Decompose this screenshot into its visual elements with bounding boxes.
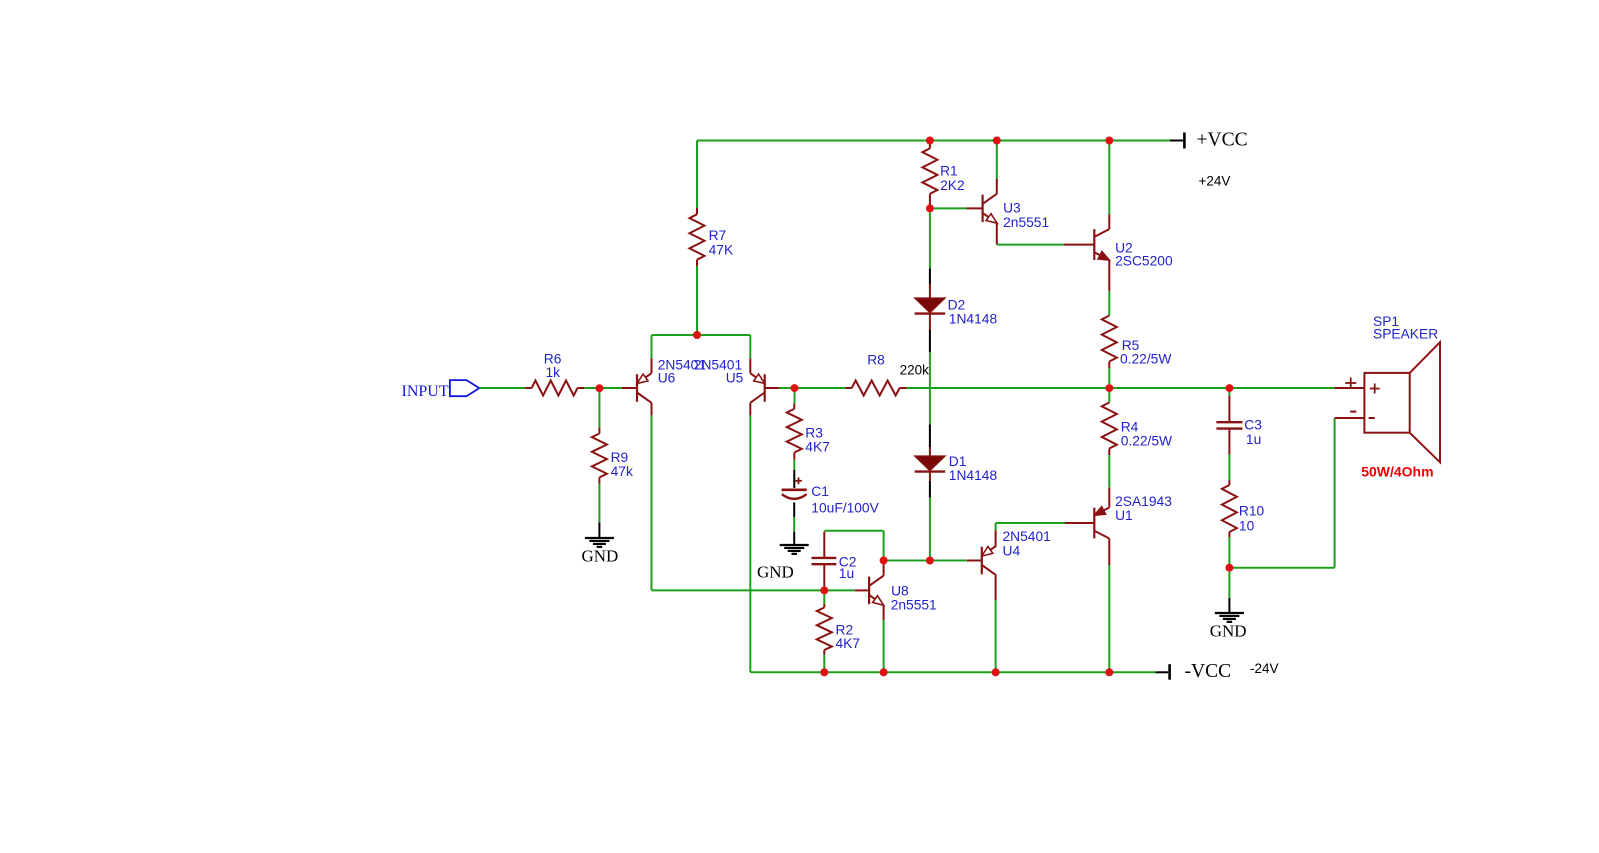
svg-text:1N4148: 1N4148 (949, 468, 998, 483)
wire U8 emitter pin (883, 605, 885, 672)
wire U6 collector pin (651, 403, 653, 591)
svg-text:47k: 47k (611, 464, 633, 479)
wire U5 collector pin (749, 403, 751, 673)
input terminal INPUT (402, 380, 480, 400)
svg-text:R10: R10 (1239, 504, 1265, 519)
svg-text:-VCC: -VCC (1185, 661, 1232, 682)
svg-text:0.22/5W: 0.22/5W (1120, 352, 1171, 367)
wire U2 emitter to R5 (1108, 260, 1110, 315)
svg-text:4K7: 4K7 (805, 440, 830, 455)
wire D1 to lower node (929, 472, 931, 560)
junction: tail / R7 (693, 331, 701, 339)
resistor R9 47k (592, 392, 633, 484)
resistor R3 4K7 (787, 392, 830, 460)
wire R6 to U6 base (585, 387, 622, 389)
junction: U5 base/R8/R3 (791, 384, 799, 392)
transistor U6 2N5401 (622, 358, 706, 403)
svg-text:1u: 1u (1246, 432, 1261, 447)
wire R10 node to ground (1228, 572, 1230, 613)
ground GND (C1) (757, 545, 809, 582)
svg-text:47K: 47K (709, 243, 734, 258)
resistor R6 1k (525, 352, 585, 396)
wire R4 to U1 emitter (1108, 487, 1110, 507)
svg-text:D1: D1 (949, 454, 967, 469)
capacitor C3 1u (1216, 392, 1262, 454)
transistor U4 2N5401 (967, 529, 1051, 575)
wire lower bias node (884, 560, 967, 562)
diode D2 1N4148 (915, 298, 998, 327)
junction: U8 collector node (880, 556, 888, 564)
svg-text:R8: R8 (867, 353, 885, 368)
svg-text:C1: C1 (811, 484, 829, 499)
wire C2 top route (824, 531, 883, 557)
wire R9 to ground (598, 484, 600, 523)
resistor R1 2K2 (922, 141, 964, 208)
power terminal +VCC (1170, 130, 1248, 189)
junction: rail/U8 emitter (880, 668, 888, 676)
svg-text:1u: 1u (839, 566, 854, 581)
junction: rail/R2 (820, 668, 828, 676)
svg-text:2N5401: 2N5401 (1003, 529, 1051, 544)
svg-text:GND: GND (757, 563, 794, 582)
wire U3 collector pin (996, 141, 998, 194)
junction: R10/GND/speaker- (1225, 564, 1233, 572)
svg-text:SPEAKER: SPEAKER (1373, 327, 1438, 342)
svg-text:10uF/100V: 10uF/100V (811, 501, 879, 516)
wire R3 to C1 (793, 460, 795, 488)
wire U8 collector pin (883, 564, 885, 576)
svg-text:U6: U6 (658, 371, 676, 386)
junction: R6/R9/U6 base (595, 384, 603, 392)
wire U4 emitter to U1 base (996, 523, 1095, 546)
wire U2 collector pin (1108, 141, 1110, 230)
svg-text:U5: U5 (726, 371, 744, 386)
resistor R4 0.22/5W (1102, 392, 1172, 487)
svg-text:2n5551: 2n5551 (891, 598, 937, 613)
speaker SP1 (1335, 314, 1440, 480)
transistor U1 2SA1943 (1094, 494, 1172, 539)
svg-text:D2: D2 (948, 298, 966, 313)
wire +VCC rail (697, 140, 1170, 142)
svg-text:0.22/5W: 0.22/5W (1121, 434, 1172, 449)
svg-text:U1: U1 (1115, 508, 1133, 523)
svg-text:2SC5200: 2SC5200 (1115, 254, 1173, 269)
wire C3 to R10 (1228, 454, 1230, 480)
transistor U3 2n5551 (983, 194, 1050, 230)
wire node to R8 (795, 387, 846, 389)
resistor R10 10 (1222, 480, 1265, 568)
resistor R8 220k (846, 353, 930, 396)
svg-text:R9: R9 (611, 450, 629, 465)
svg-text:+VCC: +VCC (1197, 130, 1248, 151)
junction: D1/U4 base node (926, 557, 934, 565)
wire U4 collector pin (995, 575, 997, 672)
svg-text:-24V: -24V (1250, 661, 1279, 676)
svg-text:U8: U8 (891, 584, 909, 599)
svg-text:U4: U4 (1003, 544, 1021, 559)
svg-text:+24V: +24V (1199, 174, 1231, 189)
junction: rail/U4 collector (992, 668, 1000, 676)
junction: R5/R4 output (1105, 384, 1113, 392)
wire U3 emitter to U2 base (997, 223, 1095, 244)
junction: rail/R1 (926, 137, 934, 145)
capacitor C1 10uF/100V (782, 477, 880, 515)
svg-text:R7: R7 (709, 228, 727, 243)
transistor U2 2SC5200 (1094, 229, 1173, 268)
wire D2 to D1 (929, 314, 931, 456)
wire U6 emitter pin (651, 335, 653, 373)
svg-text:2SA1943: 2SA1943 (1115, 494, 1172, 509)
wire C1 to ground (793, 503, 795, 546)
junction: R1/U3 base/D2 (926, 204, 934, 212)
junction: rail/U2 collector (1105, 137, 1113, 145)
svg-text:R4: R4 (1121, 420, 1139, 435)
svg-text:C3: C3 (1244, 418, 1262, 433)
ground GND (R9) (582, 523, 619, 566)
svg-text:GND: GND (582, 547, 619, 566)
junction: rail/U1 collector (1105, 668, 1113, 676)
wire input to R6 (479, 387, 525, 389)
junction: U8 base/C2/R2 (820, 586, 828, 594)
svg-text:R3: R3 (805, 426, 823, 441)
junction: rail/U3 collector (993, 137, 1001, 145)
svg-text:GND: GND (1210, 622, 1247, 641)
capacitor C2 1u (812, 532, 857, 587)
svg-text:220k: 220k (900, 363, 930, 378)
svg-text:1k: 1k (546, 365, 561, 380)
svg-text:1N4148: 1N4148 (949, 312, 998, 327)
svg-text:INPUT: INPUT (402, 383, 449, 400)
transistor U5 2N5401 (694, 358, 779, 403)
wire emitter tail rail (652, 334, 751, 336)
transistor U8 2n5551 (824, 576, 936, 613)
svg-text:4K7: 4K7 (836, 636, 861, 651)
svg-text:2K2: 2K2 (940, 178, 965, 193)
wire U5 base to node (779, 387, 795, 389)
resistor R2 4K7 (817, 594, 860, 672)
ground GND (R10) (1210, 613, 1247, 641)
resistor R7 47K (690, 141, 734, 336)
svg-text:10: 10 (1239, 519, 1255, 534)
svg-text:50W/4Ohm: 50W/4Ohm (1361, 464, 1433, 480)
wire U5 emitter pin (749, 335, 751, 373)
wire R1 node to U3 base (934, 207, 983, 209)
wire U1 collector pin (1108, 539, 1110, 673)
wire to speaker - (1229, 418, 1334, 568)
svg-text:2n5551: 2n5551 (1003, 215, 1049, 230)
wire R1 node to D2 (929, 212, 931, 298)
junction: output/C3 (1225, 384, 1233, 392)
wire U6 collector to U8 base (652, 589, 825, 591)
diode D1 1N4148 (915, 454, 998, 483)
resistor R5 0.22/5W (1102, 316, 1172, 385)
svg-text:U3: U3 (1003, 201, 1021, 216)
wire R8 to output/speaker + (907, 387, 1335, 389)
svg-text:R1: R1 (940, 164, 958, 179)
power terminal -VCC (1156, 661, 1279, 682)
wire -VCC rail (750, 671, 1155, 673)
